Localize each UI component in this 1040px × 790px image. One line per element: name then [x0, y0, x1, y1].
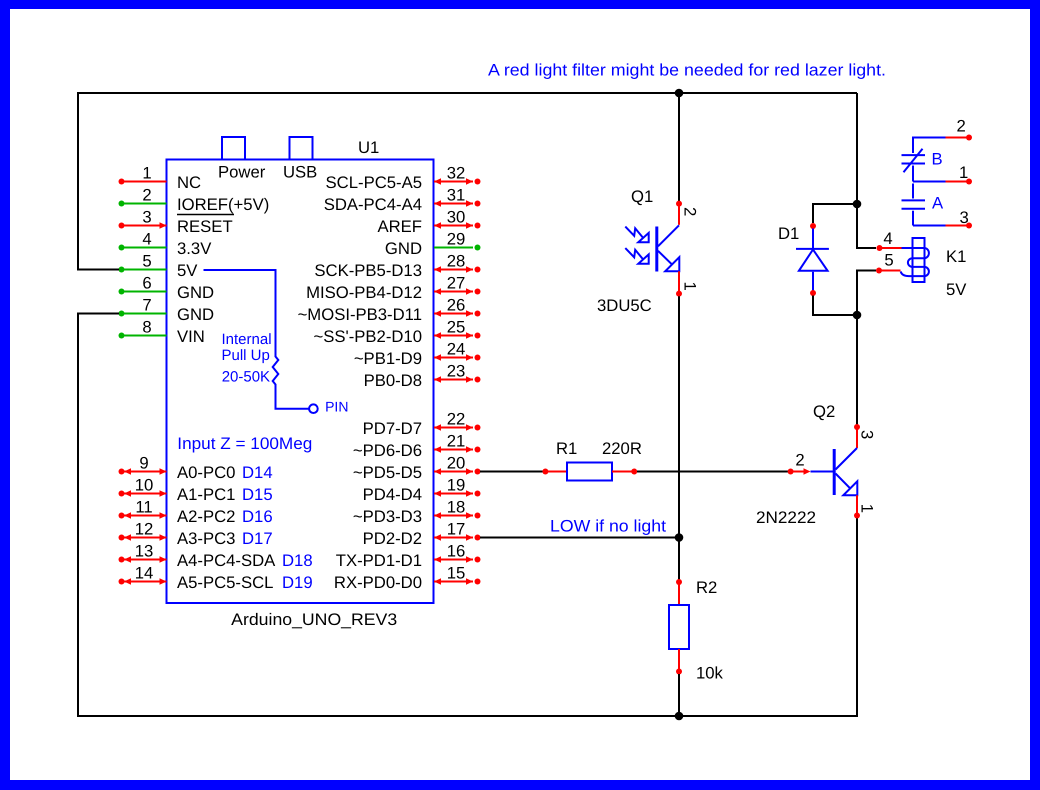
svg-text:NC: NC	[177, 173, 201, 192]
node junction D1 top	[853, 200, 862, 209]
IC U1 Arduino_UNO_REV3 body	[167, 137, 434, 629]
svg-text:A4-PC4-SDA: A4-PC4-SDA	[177, 551, 276, 570]
svg-text:SCK-PB5-D13: SCK-PB5-D13	[314, 261, 422, 280]
pin 24 ~PB1-D9	[354, 340, 481, 369]
pin 17 PD2-D2	[363, 520, 481, 549]
svg-text:27: 27	[447, 274, 466, 293]
svg-text:26: 26	[447, 296, 466, 315]
svg-text:PB0-D8: PB0-D8	[364, 371, 422, 390]
svg-text:25: 25	[447, 318, 466, 337]
resistor R1 220R	[542, 439, 642, 481]
wire D1 anode to junction	[813, 296, 857, 316]
svg-text:2: 2	[142, 186, 151, 205]
svg-text:PD4-D4: PD4-D4	[363, 485, 422, 504]
node junction PD2/R2	[675, 533, 684, 542]
svg-text:A3-PC3: A3-PC3	[177, 529, 235, 548]
pin 29 GND	[385, 230, 481, 259]
pin 5 5V	[119, 252, 199, 281]
svg-text:5: 5	[884, 251, 893, 270]
svg-text:21: 21	[447, 432, 466, 451]
pin 4 3.3V	[119, 230, 213, 259]
svg-text:D18: D18	[282, 551, 313, 570]
svg-text:3DU5C: 3DU5C	[597, 296, 652, 315]
svg-text:LOW if no light: LOW if no light	[550, 517, 666, 536]
svg-text:~PD5-D5: ~PD5-D5	[353, 463, 422, 482]
pin 27 MISO-PB4-D12	[306, 274, 480, 303]
wire top rail to relay coil pin4	[857, 93, 876, 248]
resistor internal pull-up 20-50K	[204, 270, 349, 415]
pin 2 IOREF(+5V)	[119, 186, 270, 215]
svg-text:IOREF(+5V): IOREF(+5V)	[177, 195, 269, 214]
svg-text:R1: R1	[556, 439, 577, 458]
svg-text:4: 4	[883, 229, 892, 248]
svg-text:RX-PD0-D0: RX-PD0-D0	[334, 573, 422, 592]
svg-text:A5-PC5-SCL: A5-PC5-SCL	[177, 573, 273, 592]
svg-text:30: 30	[447, 208, 466, 227]
wire 5V top rail	[78, 93, 857, 270]
wire PD5 to R1	[480, 471, 543, 473]
svg-text:12: 12	[135, 520, 154, 539]
svg-text:6: 6	[142, 274, 151, 293]
transistor Q1 3DU5C	[597, 187, 700, 315]
svg-text:MISO-PB4-D12: MISO-PB4-D12	[306, 283, 422, 302]
pin 6 GND	[119, 274, 215, 303]
svg-text:A2-PC2: A2-PC2	[177, 507, 235, 526]
svg-text:13: 13	[135, 542, 154, 561]
svg-text:A red light filter might be ne: A red light filter might be needed for r…	[488, 61, 886, 80]
wire PD2 to junction	[480, 537, 679, 539]
svg-text:Q1: Q1	[631, 187, 653, 206]
svg-text:USB: USB	[283, 163, 317, 182]
svg-text:31: 31	[447, 186, 466, 205]
svg-text:23: 23	[447, 362, 466, 381]
diode D1	[778, 223, 829, 296]
node junction top rail / Q1	[675, 89, 684, 98]
pin 11 A2-PC2 D16	[119, 498, 273, 527]
pin 13 A4-PC4-SDA D18	[119, 542, 313, 571]
svg-text:2: 2	[957, 117, 966, 136]
wire Q1 emitter down	[678, 296, 680, 537]
svg-text:20-50K: 20-50K	[222, 369, 270, 386]
svg-text:~PD3-D3: ~PD3-D3	[353, 507, 422, 526]
svg-text:8: 8	[142, 318, 151, 337]
pin 10 A1-PC1 D15	[119, 476, 273, 505]
wire GND bottom rail	[78, 314, 857, 717]
svg-text:A: A	[932, 194, 944, 213]
pin 25 ~SS'-PB2-D10	[314, 318, 481, 347]
svg-text:4: 4	[142, 230, 151, 249]
RESET overline	[177, 214, 234, 216]
pin 23 PB0-D8	[364, 362, 481, 391]
pin 1 NC	[119, 164, 202, 193]
pin 20 ~PD5-D5	[353, 454, 481, 483]
svg-text:Input Z = 100Meg: Input Z = 100Meg	[177, 434, 312, 453]
svg-text:1: 1	[959, 163, 968, 182]
svg-text:3: 3	[858, 430, 877, 439]
wire junction to D1 cathode	[813, 204, 857, 223]
pin 31 SDA-PC4-A4	[324, 186, 481, 215]
svg-text:GND: GND	[177, 283, 214, 302]
pin 22 PD7-D7	[363, 410, 481, 439]
svg-text:2N2222: 2N2222	[756, 508, 816, 527]
svg-text:32: 32	[447, 164, 466, 183]
svg-text:16: 16	[447, 542, 466, 561]
svg-text:SDA-PC4-A4: SDA-PC4-A4	[324, 195, 422, 214]
pin 9 A0-PC0 D14	[119, 454, 273, 483]
resistor R2 10k	[669, 578, 724, 683]
svg-text:220R: 220R	[602, 439, 642, 458]
pin 12 A3-PC3 D17	[119, 520, 273, 549]
svg-text:U1: U1	[358, 138, 379, 157]
svg-text:TX-PD1-D1: TX-PD1-D1	[336, 551, 422, 570]
svg-text:1: 1	[142, 164, 151, 183]
node junction D1 bottom	[853, 311, 862, 320]
relay K1 contacts	[902, 117, 973, 229]
svg-text:B: B	[932, 150, 943, 169]
svg-text:24: 24	[447, 340, 466, 359]
pin 32 SCL-PC5-A5	[326, 164, 481, 193]
svg-text:D16: D16	[242, 507, 273, 526]
node junction bottom rail / R2	[675, 712, 684, 721]
svg-text:~SS'-PB2-D10: ~SS'-PB2-D10	[314, 327, 422, 346]
pin 3 RESET	[119, 208, 233, 237]
svg-text:D14: D14	[242, 463, 273, 482]
svg-text:PIN: PIN	[325, 399, 348, 415]
svg-text:3: 3	[142, 208, 151, 227]
pin 14 A5-PC5-SCL D19	[119, 564, 313, 593]
svg-text:A1-PC1: A1-PC1	[177, 485, 235, 504]
svg-text:2: 2	[681, 207, 700, 216]
svg-text:14: 14	[135, 564, 154, 583]
pin 26 ~MOSI-PB3-D11	[298, 296, 481, 325]
wire top rail to Q1 collector	[678, 93, 680, 201]
svg-text:3.3V: 3.3V	[177, 239, 212, 258]
svg-text:1: 1	[858, 504, 877, 513]
svg-text:R2: R2	[696, 578, 717, 597]
svg-text:19: 19	[447, 476, 466, 495]
svg-text:5: 5	[142, 252, 151, 271]
pin 18 ~PD3-D3	[353, 498, 481, 527]
pin 30 AREF	[377, 208, 480, 237]
pin 21 ~PD6-D6	[353, 432, 481, 461]
svg-text:7: 7	[142, 296, 151, 315]
svg-text:2: 2	[795, 451, 804, 470]
svg-text:5V: 5V	[946, 280, 967, 299]
svg-text:15: 15	[447, 564, 466, 583]
svg-text:Arduino_UNO_REV3: Arduino_UNO_REV3	[231, 610, 397, 629]
svg-text:D15: D15	[242, 485, 273, 504]
svg-text:PD7-D7: PD7-D7	[363, 419, 422, 438]
svg-text:GND: GND	[177, 305, 214, 324]
svg-text:SCL-PC5-A5: SCL-PC5-A5	[326, 173, 422, 192]
svg-text:VIN: VIN	[177, 327, 205, 346]
svg-text:9: 9	[139, 454, 148, 473]
svg-text:GND: GND	[385, 239, 422, 258]
svg-text:RESET: RESET	[177, 217, 233, 236]
svg-text:Pull Up: Pull Up	[222, 347, 270, 364]
wire junction to R2	[678, 538, 680, 580]
svg-text:28: 28	[447, 252, 466, 271]
svg-text:11: 11	[135, 498, 152, 517]
pin 16 TX-PD1-D1	[336, 542, 481, 571]
svg-text:1: 1	[681, 282, 700, 291]
pin 15 RX-PD0-D0	[334, 564, 481, 593]
svg-text:3: 3	[960, 208, 969, 227]
pin 19 PD4-D4	[363, 476, 481, 505]
svg-text:K1: K1	[946, 247, 966, 266]
svg-text:29: 29	[447, 230, 466, 249]
svg-text:18: 18	[447, 498, 466, 517]
svg-text:Internal: Internal	[222, 331, 272, 348]
svg-text:PD2-D2: PD2-D2	[363, 529, 422, 548]
svg-text:~PD6-D6: ~PD6-D6	[353, 441, 422, 460]
svg-text:10k: 10k	[696, 664, 724, 683]
svg-text:D1: D1	[778, 224, 799, 243]
svg-text:D17: D17	[242, 529, 273, 548]
transistor Q2 2N2222	[756, 402, 877, 527]
svg-text:5V: 5V	[177, 261, 198, 280]
svg-text:~MOSI-PB3-D11: ~MOSI-PB3-D11	[298, 305, 422, 324]
pin 7 GND	[119, 296, 215, 325]
wire relay coil pin5 to Q2 collector	[857, 271, 876, 426]
svg-text:Power: Power	[218, 163, 266, 182]
svg-text:Q2: Q2	[813, 402, 835, 421]
pin 8 VIN	[119, 318, 205, 347]
pin 28 SCK-PB5-D13	[314, 252, 480, 281]
svg-text:10: 10	[135, 476, 154, 495]
svg-text:17: 17	[447, 520, 466, 539]
svg-text:AREF: AREF	[377, 217, 422, 236]
svg-text:A0-PC0: A0-PC0	[177, 463, 235, 482]
svg-text:~PB1-D9: ~PB1-D9	[354, 349, 422, 368]
svg-text:22: 22	[447, 410, 466, 429]
relay K1 coil	[876, 229, 967, 299]
svg-text:D19: D19	[282, 573, 313, 592]
wire R2 to bottom rail	[678, 674, 680, 716]
wire R1 to Q2 base	[637, 471, 788, 473]
svg-text:20: 20	[447, 454, 466, 473]
